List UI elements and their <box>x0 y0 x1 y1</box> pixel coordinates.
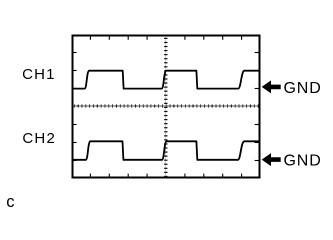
CH2 waveform trace <box>72 141 260 160</box>
svg-text:CH2: CH2 <box>22 130 56 147</box>
oscilloscope display frame <box>73 36 260 178</box>
vertical center axis <box>164 37 167 178</box>
svg-text:CH1: CH1 <box>22 66 56 83</box>
CH1 waveform trace <box>72 71 260 89</box>
top edge division ticks <box>90 36 241 40</box>
svg-text:GND: GND <box>284 152 322 169</box>
bottom edge division ticks <box>90 174 241 178</box>
GND arrow (CH2 ground level) <box>262 153 281 166</box>
left edge division ticks <box>72 53 77 161</box>
horizontal center axis <box>73 104 260 107</box>
svg-text:GND: GND <box>284 80 322 97</box>
GND arrow (CH1 ground level) <box>262 80 281 93</box>
right edge division ticks <box>255 53 260 161</box>
svg-text:c: c <box>6 193 14 211</box>
